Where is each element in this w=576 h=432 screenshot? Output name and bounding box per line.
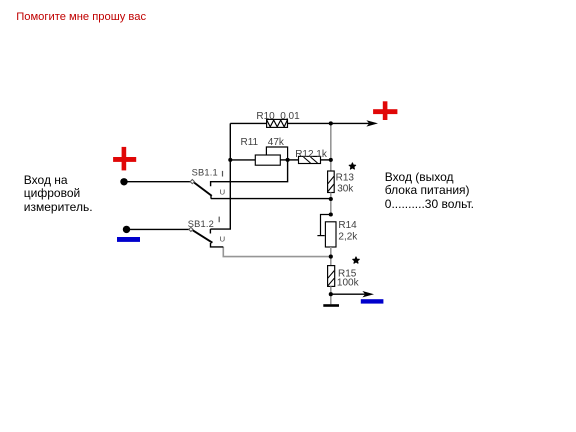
svg-text:2,2k: 2,2k [338,231,358,242]
node: top rail / column B [329,121,333,125]
wire: SB1.1 lower contact line [211,198,331,200]
wire: SB1.2 lower run (gray) [223,247,330,257]
trimmer R13 (box with slashes) [328,171,335,193]
wire: output to arrow [331,293,365,295]
svg-text:SB1.2: SB1.2 [188,219,214,229]
node: R14 tap junction [329,212,333,216]
svg-text:R11: R11 [241,137,259,148]
trimmer R15 (box with slashes) [328,266,335,287]
resistor R10 (shunt, zigzag in box) [267,119,288,127]
svg-text:R10: R10 [256,111,275,122]
wire: R15 bottom to output node (gray) [330,286,332,294]
asterisk for R15 [353,257,359,263]
label I (SB1.1 upper) [222,171,223,177]
svg-text:SB1.1: SB1.1 [192,167,218,177]
node: R14 bottom junction [329,255,333,259]
wire: minus terminal to SB1.2 [127,228,190,230]
wire: stub to ground (gray) [330,294,332,304]
node: R12 right on column B [329,158,333,162]
terminal node: plus input [120,178,127,185]
wire: R14 bottom to junction (gray) [330,247,332,257]
svg-text:R14: R14 [338,220,357,231]
switch SB1.1 [190,160,287,199]
svg-text:U: U [220,187,225,196]
node: output junction [329,292,333,296]
svg-text:47k: 47k [268,137,285,148]
minus symbol right [361,299,384,303]
wire: junction to R15 (gray) [330,257,332,266]
ground [323,304,339,307]
wire: left vertical line A [210,123,230,229]
wire: R11 to junction [280,159,287,161]
wire: R11 row left [230,159,255,161]
svg-text:R13: R13 [336,173,355,184]
plus symbol right [373,101,397,120]
resistor R14 body [325,222,336,247]
arrow to minus output [362,291,374,297]
switch SB1.2 [189,227,224,247]
wire: top rail left stub [230,122,266,124]
minus symbol left [117,237,140,242]
R14 tap bracket [317,215,330,236]
wire: top rail right of R10 to arrow [288,122,370,124]
title text [16,11,146,23]
node: R11 wiper / R12 junction [286,158,290,162]
left label: input to digital meter [24,174,93,214]
svg-text:30k: 30k [337,183,354,194]
svg-text:U: U [220,235,225,244]
terminal node: minus input [123,226,130,233]
asterisk for R13 [349,163,355,169]
wire: column B to R14 tap junction (gray) [330,199,332,215]
wire: R12 to column B [321,159,331,161]
arrow to plus output [366,120,378,126]
node: junction line A / R11 wire [228,158,232,162]
right label: input (power supply output) [385,171,474,211]
wire: plus terminal to SB1.1 [124,181,191,183]
wire: column B top (gray) [330,123,332,171]
node: R13 bottom junction [329,197,333,201]
svg-text:100k: 100k [337,278,360,289]
R11 wiper link to right terminal [266,147,287,160]
resistor R12 (box with two slashes) [299,156,321,163]
plus symbol left [113,147,136,171]
wire: R13 bottom to junction (gray) [330,193,332,200]
label I (SB1.2 upper) [219,217,220,223]
potentiometer R11 body [255,155,280,165]
wire: junction to R12 [288,159,299,161]
svg-text:0.01: 0.01 [280,111,300,122]
svg-text:R12 1k: R12 1k [295,149,328,160]
